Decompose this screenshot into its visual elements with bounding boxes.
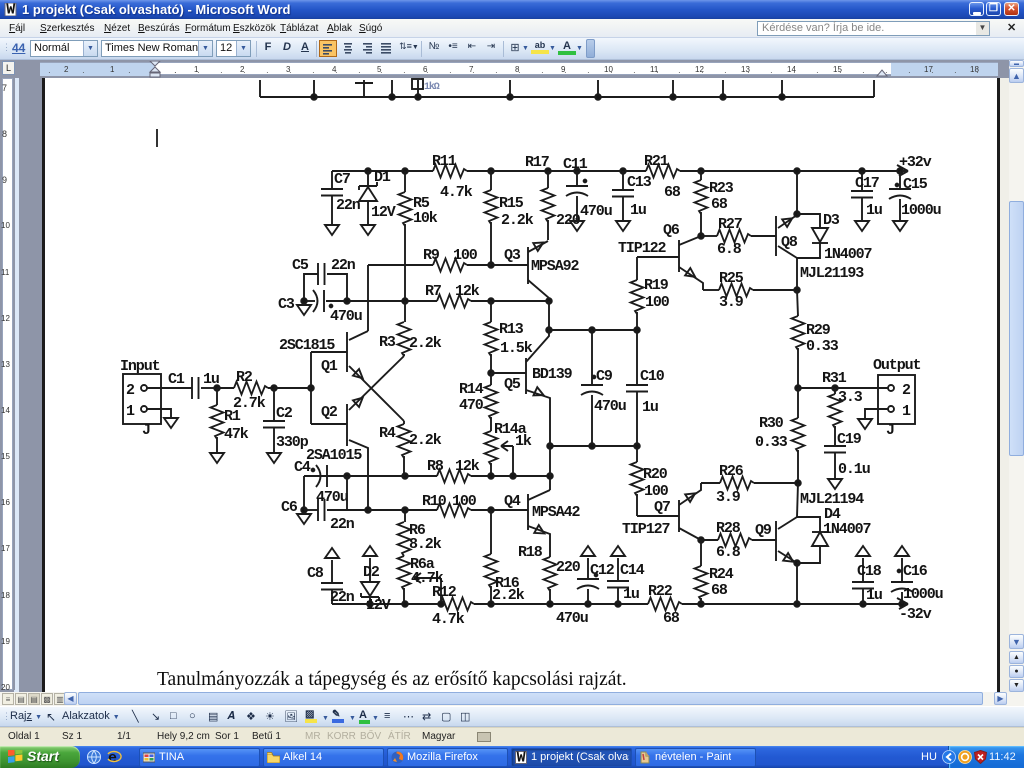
svg-text:W: W (517, 751, 526, 764)
svg-text:C19: C19 (837, 431, 862, 448)
svg-text:47k: 47k (224, 426, 249, 443)
svg-text:R3: R3 (379, 334, 396, 351)
potentiometer R14a 1k (490, 417, 492, 431)
pin 1 (141, 406, 147, 412)
wire column x550 (549, 446, 551, 490)
ground (D2, inverted) (363, 546, 377, 556)
junction Q5 emitter column / R8 row (547, 473, 553, 479)
resistor R30 0.33 (797, 388, 799, 418)
emitter arrow Q6 (685, 268, 698, 281)
svg-text:MJL21193: MJL21193 (800, 265, 864, 282)
junction R15/top rail (488, 168, 494, 174)
svg-text:TIP122: TIP122 (618, 240, 667, 257)
resistor R25 3.9 (703, 289, 719, 291)
resistor R10 100 (368, 509, 437, 511)
ground (R1) (210, 453, 224, 463)
transistor Q7 TIP127 (678, 500, 680, 532)
svg-text:6.8: 6.8 (716, 544, 741, 561)
svg-text:12k: 12k (455, 458, 480, 475)
junction C13/top rail (620, 168, 626, 174)
resistor R6 8.2k (404, 510, 406, 522)
resistor R20 100 (636, 446, 638, 462)
junction C6 left node (301, 507, 307, 513)
resistor R7 12k (437, 295, 471, 308)
junction Q5 emitter / row446 (547, 443, 553, 449)
svg-text:22n: 22n (330, 516, 355, 533)
ground (C14, inverted) (611, 546, 625, 556)
svg-text:0.33: 0.33 (806, 338, 839, 355)
svg-text:Q6: Q6 (663, 222, 680, 239)
svg-text:R27: R27 (718, 216, 742, 233)
wire stub x364 (363, 80, 365, 97)
ground (D1) (361, 225, 375, 235)
junction C5/C3 right node (344, 298, 350, 304)
svg-text:C18: C18 (857, 563, 882, 580)
capacitor plate (cut) (355, 82, 373, 84)
svg-text:2SC1815: 2SC1815 (279, 337, 335, 354)
svg-text:1: 1 (902, 403, 911, 420)
ground (output pin1) (858, 419, 872, 429)
resistor R14 470 (490, 373, 492, 385)
wire stub x723 (722, 80, 724, 97)
svg-text:100: 100 (453, 247, 478, 264)
svg-text:2: 2 (902, 382, 911, 399)
capacitor C7 (331, 171, 333, 189)
svg-text:C16: C16 (903, 563, 928, 580)
capacitor C16 1000u (901, 592, 903, 604)
wire bias row y446 (550, 445, 637, 447)
svg-text:22n: 22n (330, 589, 355, 606)
junction C11/top rail (574, 168, 580, 174)
svg-text:68: 68 (711, 196, 728, 213)
svg-text:C9: C9 (596, 368, 613, 385)
wire Q1 collector (349, 331, 368, 340)
wire top rail y171 right (680, 170, 908, 172)
svg-text:R19: R19 (644, 277, 669, 294)
wire Q3 base (491, 264, 528, 266)
svg-text:MPSA42: MPSA42 (532, 504, 581, 521)
wire Q3 emitter column (548, 301, 550, 330)
wire stub left corner (259, 80, 261, 97)
svg-text:R25: R25 (719, 270, 744, 287)
svg-text:R22: R22 (648, 583, 673, 600)
wire Q8 collector (778, 246, 797, 258)
svg-text:Q4: Q4 (504, 493, 521, 510)
svg-text:R24: R24 (709, 566, 734, 583)
svg-text:22n: 22n (336, 197, 361, 214)
diode D4 1N4007 (797, 517, 820, 531)
ground (C8, inverted) (325, 548, 339, 558)
wire Q7 base (637, 515, 679, 517)
svg-text:330p: 330p (276, 434, 309, 451)
svg-text:Q3: Q3 (504, 247, 521, 264)
junction Q9 emitter / bottom rail (794, 601, 800, 607)
svg-text:C7: C7 (334, 171, 350, 188)
junction R4 bottom / R8 row (402, 473, 408, 479)
pin 2 (888, 385, 894, 391)
svg-text:1N4007: 1N4007 (824, 246, 872, 263)
wire Q4 emitter (528, 526, 550, 557)
svg-text:R4: R4 (379, 425, 396, 442)
junction C9 bottom (589, 443, 595, 449)
component box (cut) (412, 79, 423, 89)
svg-text:68: 68 (664, 184, 681, 201)
junction on bus x314 (311, 94, 317, 100)
resistor R16 2.2k (490, 510, 492, 554)
svg-text:0.1u: 0.1u (838, 461, 870, 478)
wire bottom rail left (332, 603, 440, 605)
junction D2 / bottom rail (367, 601, 373, 607)
resistor R8 12k (437, 470, 471, 483)
emitter arrow Q5 (533, 387, 545, 399)
junction on bus x418 (415, 94, 421, 100)
wire stub x598 (597, 80, 599, 97)
svg-text:C2: C2 (276, 405, 293, 422)
svg-text:D2: D2 (363, 564, 380, 581)
capacitor C19 0.1u (824, 445, 846, 447)
ground (C17) (855, 221, 869, 231)
node Q8 emitter / D3 (794, 211, 800, 217)
svg-text:2.7k: 2.7k (233, 395, 266, 412)
svg-text:1N4007: 1N4007 (823, 521, 871, 538)
junction R6 top / R10 row (402, 507, 408, 513)
svg-text:R26: R26 (719, 463, 744, 480)
junction C9 top (589, 327, 595, 333)
collector arrow Q3 (533, 239, 545, 251)
wire pin1 to ground (865, 409, 888, 418)
ground (C7) (325, 225, 339, 235)
junction on bus x723 (720, 94, 726, 100)
junction D1/top rail (365, 168, 371, 174)
wire Q1 emitter diagonal (349, 366, 404, 421)
node R26 / R30 / Q9 collector (795, 480, 801, 486)
text cursor (156, 129, 158, 147)
transistor Q8 MJL21193 (775, 216, 777, 256)
resistor R3 2.2k (404, 301, 406, 322)
wire stub right corner (873, 80, 875, 97)
svg-text:C17: C17 (855, 175, 879, 192)
svg-text:6.8: 6.8 (717, 241, 742, 258)
svg-text:R29: R29 (806, 322, 831, 339)
connector J Input (123, 374, 161, 424)
svg-text:C15: C15 (903, 176, 928, 193)
ground (input pin1) (164, 418, 178, 428)
svg-text:Input: Input (120, 358, 160, 375)
junction R5 column / R7 row (402, 298, 408, 304)
capacitor C5 22n (304, 274, 318, 301)
resistor R4 2.2k (403, 354, 405, 356)
emitter arrow Q2 (353, 394, 366, 407)
collector arrow Q7 (685, 490, 697, 502)
svg-text:C14: C14 (620, 562, 645, 579)
junction R16 top / R10 row (488, 507, 494, 513)
wire Q8 riser to top rail (796, 171, 798, 214)
ground (C2) (267, 453, 281, 463)
svg-text:2.2k: 2.2k (409, 432, 442, 449)
wire Q8 emitter (778, 215, 797, 228)
wire top rail y171 left (332, 170, 433, 172)
resistor R22 68 (inline) (648, 598, 682, 611)
wire Q9 collector (778, 517, 797, 529)
svg-text:2.2k: 2.2k (409, 335, 442, 352)
svg-text:J: J (886, 422, 894, 439)
svg-text:3.9: 3.9 (716, 489, 741, 506)
resistor R11 4.7k (433, 165, 467, 178)
svg-text:4.7k: 4.7k (432, 611, 465, 628)
node Q9 emitter / D4 (794, 560, 800, 566)
svg-text:BD139: BD139 (532, 366, 573, 383)
node Q3 emitter column / row330 (546, 327, 552, 333)
transistor Q1 2SC1815 (346, 332, 348, 372)
svg-text:R21: R21 (644, 153, 669, 170)
wire output row (798, 387, 888, 389)
svg-text:220: 220 (556, 559, 581, 576)
capacitor C3 470u (inline) (313, 290, 318, 312)
wire stub x510 (509, 80, 511, 97)
svg-text:R20: R20 (643, 466, 668, 483)
svg-text:12V: 12V (371, 204, 396, 221)
svg-text:Output: Output (873, 357, 921, 374)
svg-text:Q7: Q7 (654, 499, 670, 516)
junction on bus x392 (389, 94, 395, 100)
svg-text:Q5: Q5 (504, 376, 521, 393)
svg-text:100: 100 (644, 483, 669, 500)
svg-text:3.9: 3.9 (719, 294, 744, 311)
ground (C12, inverted) (581, 546, 595, 556)
node R13 / R14 / Q5 base (488, 370, 494, 376)
svg-text:1: 1 (126, 403, 135, 420)
wire stub x392 (391, 80, 393, 97)
resistor R18 220 (544, 557, 557, 591)
capacitor C6 22n (304, 509, 318, 511)
resistor R27 6.8 (701, 235, 717, 237)
diode D2 (12V zener) (369, 597, 371, 604)
svg-text:C5: C5 (292, 257, 309, 274)
svg-text:2SA1015: 2SA1015 (306, 447, 362, 464)
svg-text:J: J (142, 422, 150, 439)
junction R5/top rail (402, 168, 408, 174)
junction on bus x598 (595, 94, 601, 100)
wire C4/C6 left node (303, 476, 305, 510)
junction R17/top rail (545, 168, 551, 174)
svg-text:1000u: 1000u (903, 586, 943, 603)
resistor R21 68 (646, 165, 680, 178)
pin 2 (141, 385, 147, 391)
svg-text:R10: R10 (422, 493, 447, 510)
wire stub x782 (781, 80, 783, 97)
svg-text:8.2k: 8.2k (409, 536, 442, 553)
wire stub x418 (417, 80, 419, 97)
ground (C18, inverted) (856, 546, 870, 556)
junction R31/output row (832, 385, 838, 391)
node Q7 emitter / R28 / R24 (698, 537, 704, 543)
wire Q3 collector (528, 241, 548, 252)
svg-text:1.5k: 1.5k (500, 340, 533, 357)
svg-text:1u: 1u (642, 399, 658, 416)
capacitor C4 470u (316, 465, 321, 487)
wire Q2 emitter diagonal (349, 356, 404, 410)
svg-text:Q2: Q2 (321, 404, 338, 421)
svg-text:470u: 470u (594, 398, 626, 415)
svg-text:68: 68 (711, 582, 728, 599)
junction C14 / bottom rail (615, 601, 621, 607)
junction C10 bottom / R20 (634, 443, 640, 449)
emitter arrow Q4 (534, 525, 546, 537)
wire R8 row y476 (304, 475, 437, 477)
wire Q1 base (311, 351, 347, 353)
node R25 / Q8 / R29 (794, 287, 800, 293)
wiper R6a (414, 573, 441, 583)
svg-text:12k: 12k (455, 283, 480, 300)
svg-text:Tanulmányozzák a tápegység és: Tanulmányozzák a tápegység és az erősítő… (157, 669, 627, 690)
wire stub x673 (672, 80, 674, 97)
capacitor C9 470u (591, 330, 593, 385)
wire pin1 to ground (147, 409, 171, 417)
svg-text:R2: R2 (236, 369, 253, 386)
wire Q5 collector (526, 330, 549, 362)
svg-text:2: 2 (126, 382, 135, 399)
svg-text:C12: C12 (590, 562, 615, 579)
resistor R13 1.5k (490, 301, 492, 322)
ground (C11) (570, 221, 584, 231)
wire bus (260, 96, 874, 98)
svg-text:Q9: Q9 (755, 522, 772, 539)
svg-text:R14: R14 (459, 381, 484, 398)
svg-text:68: 68 (663, 610, 680, 627)
connector J Output (878, 375, 915, 424)
capacitor C1 1u (147, 387, 192, 389)
node Q3 emitter / R7 row (546, 298, 552, 304)
ground (C15) (893, 221, 907, 231)
svg-text:1u: 1u (866, 587, 882, 604)
wire Q5 base (491, 372, 526, 374)
wiper R14a (501, 441, 513, 451)
transistor Q2 2SA1015 (346, 404, 348, 446)
svg-text:R11: R11 (432, 153, 457, 170)
junction C1 / R1 / R2 (214, 385, 220, 391)
svg-text:R7: R7 (425, 283, 441, 300)
wire input base column (310, 352, 312, 424)
resistor R12 4.7k (inline) (440, 598, 474, 611)
junction R23/top rail (698, 168, 704, 174)
wire top rail y171 mid (467, 170, 646, 172)
wire Q9 collector riser (797, 483, 798, 517)
transistor Q3 MPSA92 (527, 247, 529, 284)
wire Q6 collector (679, 236, 701, 245)
svg-text:12V: 12V (366, 597, 391, 614)
junction R13 top / R7 row (488, 298, 494, 304)
svg-text:470u: 470u (316, 489, 348, 506)
junction C17/top rail (859, 168, 865, 174)
svg-text:3.3: 3.3 (838, 389, 863, 406)
ground (C16, inverted) (895, 546, 909, 556)
capacitor C10 1u (636, 330, 638, 385)
junction R6a wiper / bottom rail (438, 601, 444, 607)
resistor R2 2.7k (217, 387, 234, 389)
capacitor C14 1u (617, 588, 619, 604)
ground (C3/C5) (297, 305, 311, 315)
resistor R9 100 (368, 264, 433, 266)
wire Q7 emitter (679, 528, 701, 540)
junction R2 / C2 (271, 385, 277, 391)
svg-text:Q1: Q1 (321, 358, 338, 375)
wire Q4 collector (528, 490, 550, 500)
svg-text:R30: R30 (759, 415, 784, 432)
junction R16 / bottom rail (488, 601, 494, 607)
svg-text:1000u: 1000u (901, 202, 941, 219)
capacitor C12 470u (587, 589, 589, 604)
capacitor C8 22n (331, 590, 333, 604)
svg-text:470u: 470u (580, 203, 612, 220)
resistor R26 3.9 (701, 482, 720, 484)
ground (C4/C6) (297, 514, 311, 524)
junction C12 / bottom rail (585, 601, 591, 607)
junction R24 / bottom rail (698, 601, 704, 607)
svg-text:470u: 470u (330, 308, 362, 325)
svg-text:R12: R12 (432, 584, 457, 601)
svg-text:D1: D1 (374, 169, 391, 186)
wire Q3 emitter (528, 280, 549, 301)
junction C4/C6 right node (344, 473, 350, 479)
junction R14a bottom (488, 473, 494, 479)
wire R7 row y301 (304, 300, 315, 302)
svg-text:R13: R13 (499, 321, 524, 338)
junction R19 / C10 top (634, 327, 640, 333)
emitter arrow Q8 (782, 215, 794, 227)
junction on bus x673 (670, 94, 676, 100)
wire Q9 emitter (778, 551, 797, 563)
svg-text:D3: D3 (823, 212, 840, 229)
junction C18 / bottom rail (860, 601, 866, 607)
ground (C13) (616, 221, 630, 231)
pin 1 (888, 406, 894, 412)
node R15 / R9 / Q3 base (488, 262, 494, 268)
junction input node (308, 385, 314, 391)
svg-text:2.2k: 2.2k (501, 212, 534, 229)
wire R5 column down to R7 row (404, 224, 406, 301)
junction C16 / bottom rail (899, 601, 905, 607)
wire C4/C6 right node vertical (346, 476, 348, 510)
svg-text:100: 100 (452, 493, 477, 510)
transistor Q4 MPSA42 (527, 494, 529, 530)
ground (C19) (828, 479, 842, 489)
junction R6a / bottom rail (402, 601, 408, 607)
wire Q7 collector (679, 483, 701, 505)
junction C5/C3 left node (301, 298, 307, 304)
node output (795, 385, 801, 391)
svg-text:470u: 470u (556, 610, 588, 627)
transistor Q6 TIP122 (678, 240, 680, 272)
svg-text:0.33: 0.33 (755, 434, 788, 451)
svg-text:4.7k: 4.7k (440, 184, 473, 201)
svg-text:C3: C3 (278, 296, 295, 313)
svg-text:1u: 1u (630, 202, 646, 219)
wire Q6 base (637, 256, 679, 258)
svg-text:R28: R28 (716, 520, 741, 537)
svg-text:R8: R8 (427, 458, 444, 475)
svg-text:R18: R18 (518, 544, 543, 561)
svg-text:C13: C13 (627, 174, 652, 191)
svg-text:R9: R9 (423, 247, 440, 264)
junction C15/top rail (897, 168, 903, 174)
emitter arrow Q9 (783, 553, 795, 565)
svg-text:100: 100 (645, 294, 670, 311)
capacitor C18 1u (862, 589, 864, 604)
wire Q2 base (311, 423, 347, 425)
svg-text:22n: 22n (331, 257, 356, 274)
svg-text:470: 470 (459, 397, 484, 414)
svg-text:R17: R17 (525, 154, 549, 171)
